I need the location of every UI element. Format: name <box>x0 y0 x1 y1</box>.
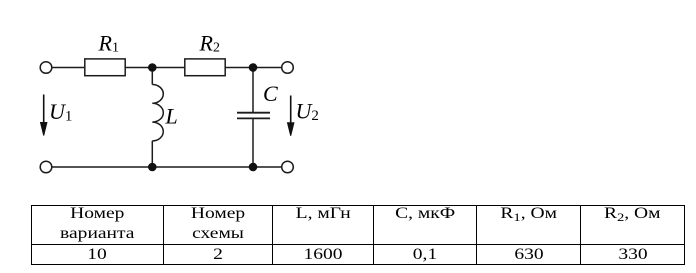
svg-text:R1: R1 <box>98 31 119 56</box>
terminal bottom-left <box>40 161 52 173</box>
node junction top L <box>148 63 157 72</box>
svg-text:L: L <box>165 104 178 129</box>
svg-text:U2: U2 <box>296 99 319 125</box>
terminal bottom-right <box>282 161 294 173</box>
wire capacitor branch top <box>252 68 254 113</box>
parameters table <box>31 205 685 265</box>
terminal top-left <box>40 62 52 74</box>
arrow U2 <box>290 96 292 128</box>
wire bottom <box>52 166 282 168</box>
node junction bottom L <box>148 163 157 172</box>
capacitor C plates <box>237 112 270 114</box>
svg-text:C: C <box>263 81 278 106</box>
wire capacitor branch bottom <box>252 118 254 167</box>
inductor L <box>152 85 163 141</box>
svg-text:U1: U1 <box>49 99 72 125</box>
node junction bottom C <box>249 163 258 172</box>
resistor R2 <box>185 59 225 76</box>
wire inductor branch top <box>151 68 153 85</box>
wire R1 to R2 <box>125 67 185 69</box>
arrow U1 <box>43 95 45 127</box>
node junction top C <box>249 63 258 72</box>
terminal top-right <box>282 62 294 74</box>
wire inductor branch bottom <box>151 141 153 167</box>
wire top-left to R1 <box>52 67 85 69</box>
resistor R1 <box>85 59 125 76</box>
svg-text:R2: R2 <box>199 31 220 56</box>
circuit schematic drawing <box>0 0 350 200</box>
wire R2 to top-right terminal <box>225 67 282 69</box>
